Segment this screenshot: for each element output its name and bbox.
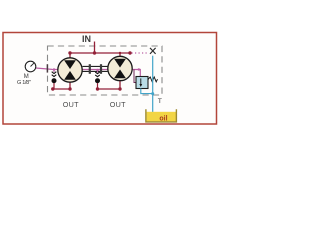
wire: pump2 bottom drop xyxy=(119,80,121,89)
shaft coupling between pumps xyxy=(83,64,108,74)
node: magenta tap CV2 xyxy=(96,69,99,72)
pump P2 (circle with two triangles) xyxy=(108,56,132,80)
svg-text:OUT: OUT xyxy=(63,100,79,109)
wire: bottom bus 1 xyxy=(53,88,70,90)
wire: pump1 bottom drop xyxy=(69,81,71,89)
port X (plugged pilot port) xyxy=(150,48,156,54)
node dots on bottom buses xyxy=(51,87,54,90)
relief valve RV1 xyxy=(136,77,158,89)
check valve CV2 xyxy=(95,70,100,89)
enclosure dashed boundary xyxy=(48,46,163,95)
wire: gauge line (magenta main suction/gauge manifold) xyxy=(36,68,141,77)
oil tank xyxy=(146,109,177,122)
wire: pilot bracket at relief valve xyxy=(134,70,137,83)
node: cyan junction xyxy=(151,92,154,95)
wire: pilot dotted line to X port xyxy=(132,52,148,54)
wire: pump2 top riser xyxy=(119,53,121,58)
svg-text:oil: oil xyxy=(159,115,167,122)
wire: top pressure bus xyxy=(70,52,130,54)
port tick on enclosure wall (gauge line) xyxy=(46,64,48,72)
node dots on top bus xyxy=(68,51,71,54)
wire: tank line T (cyan vertical) xyxy=(152,56,154,113)
svg-text:T: T xyxy=(158,98,162,105)
pressure gauge M xyxy=(25,61,36,72)
svg-text:G 1/8": G 1/8" xyxy=(17,80,31,86)
wire: pump1 top riser xyxy=(69,53,71,59)
node: magenta tap CV1 xyxy=(53,68,56,71)
node: magenta tap valve xyxy=(138,68,140,70)
pump P1 (circle with two triangles) xyxy=(58,58,82,82)
wire: IN riser xyxy=(94,42,96,54)
red border frame xyxy=(3,33,217,125)
check valve CV1 xyxy=(52,70,57,90)
svg-text:OUT: OUT xyxy=(110,100,126,109)
wire: bottom bus 2 xyxy=(98,88,121,90)
svg-text:IN: IN xyxy=(82,34,91,44)
wire: valve drain to tank line (cyan) xyxy=(141,89,153,94)
